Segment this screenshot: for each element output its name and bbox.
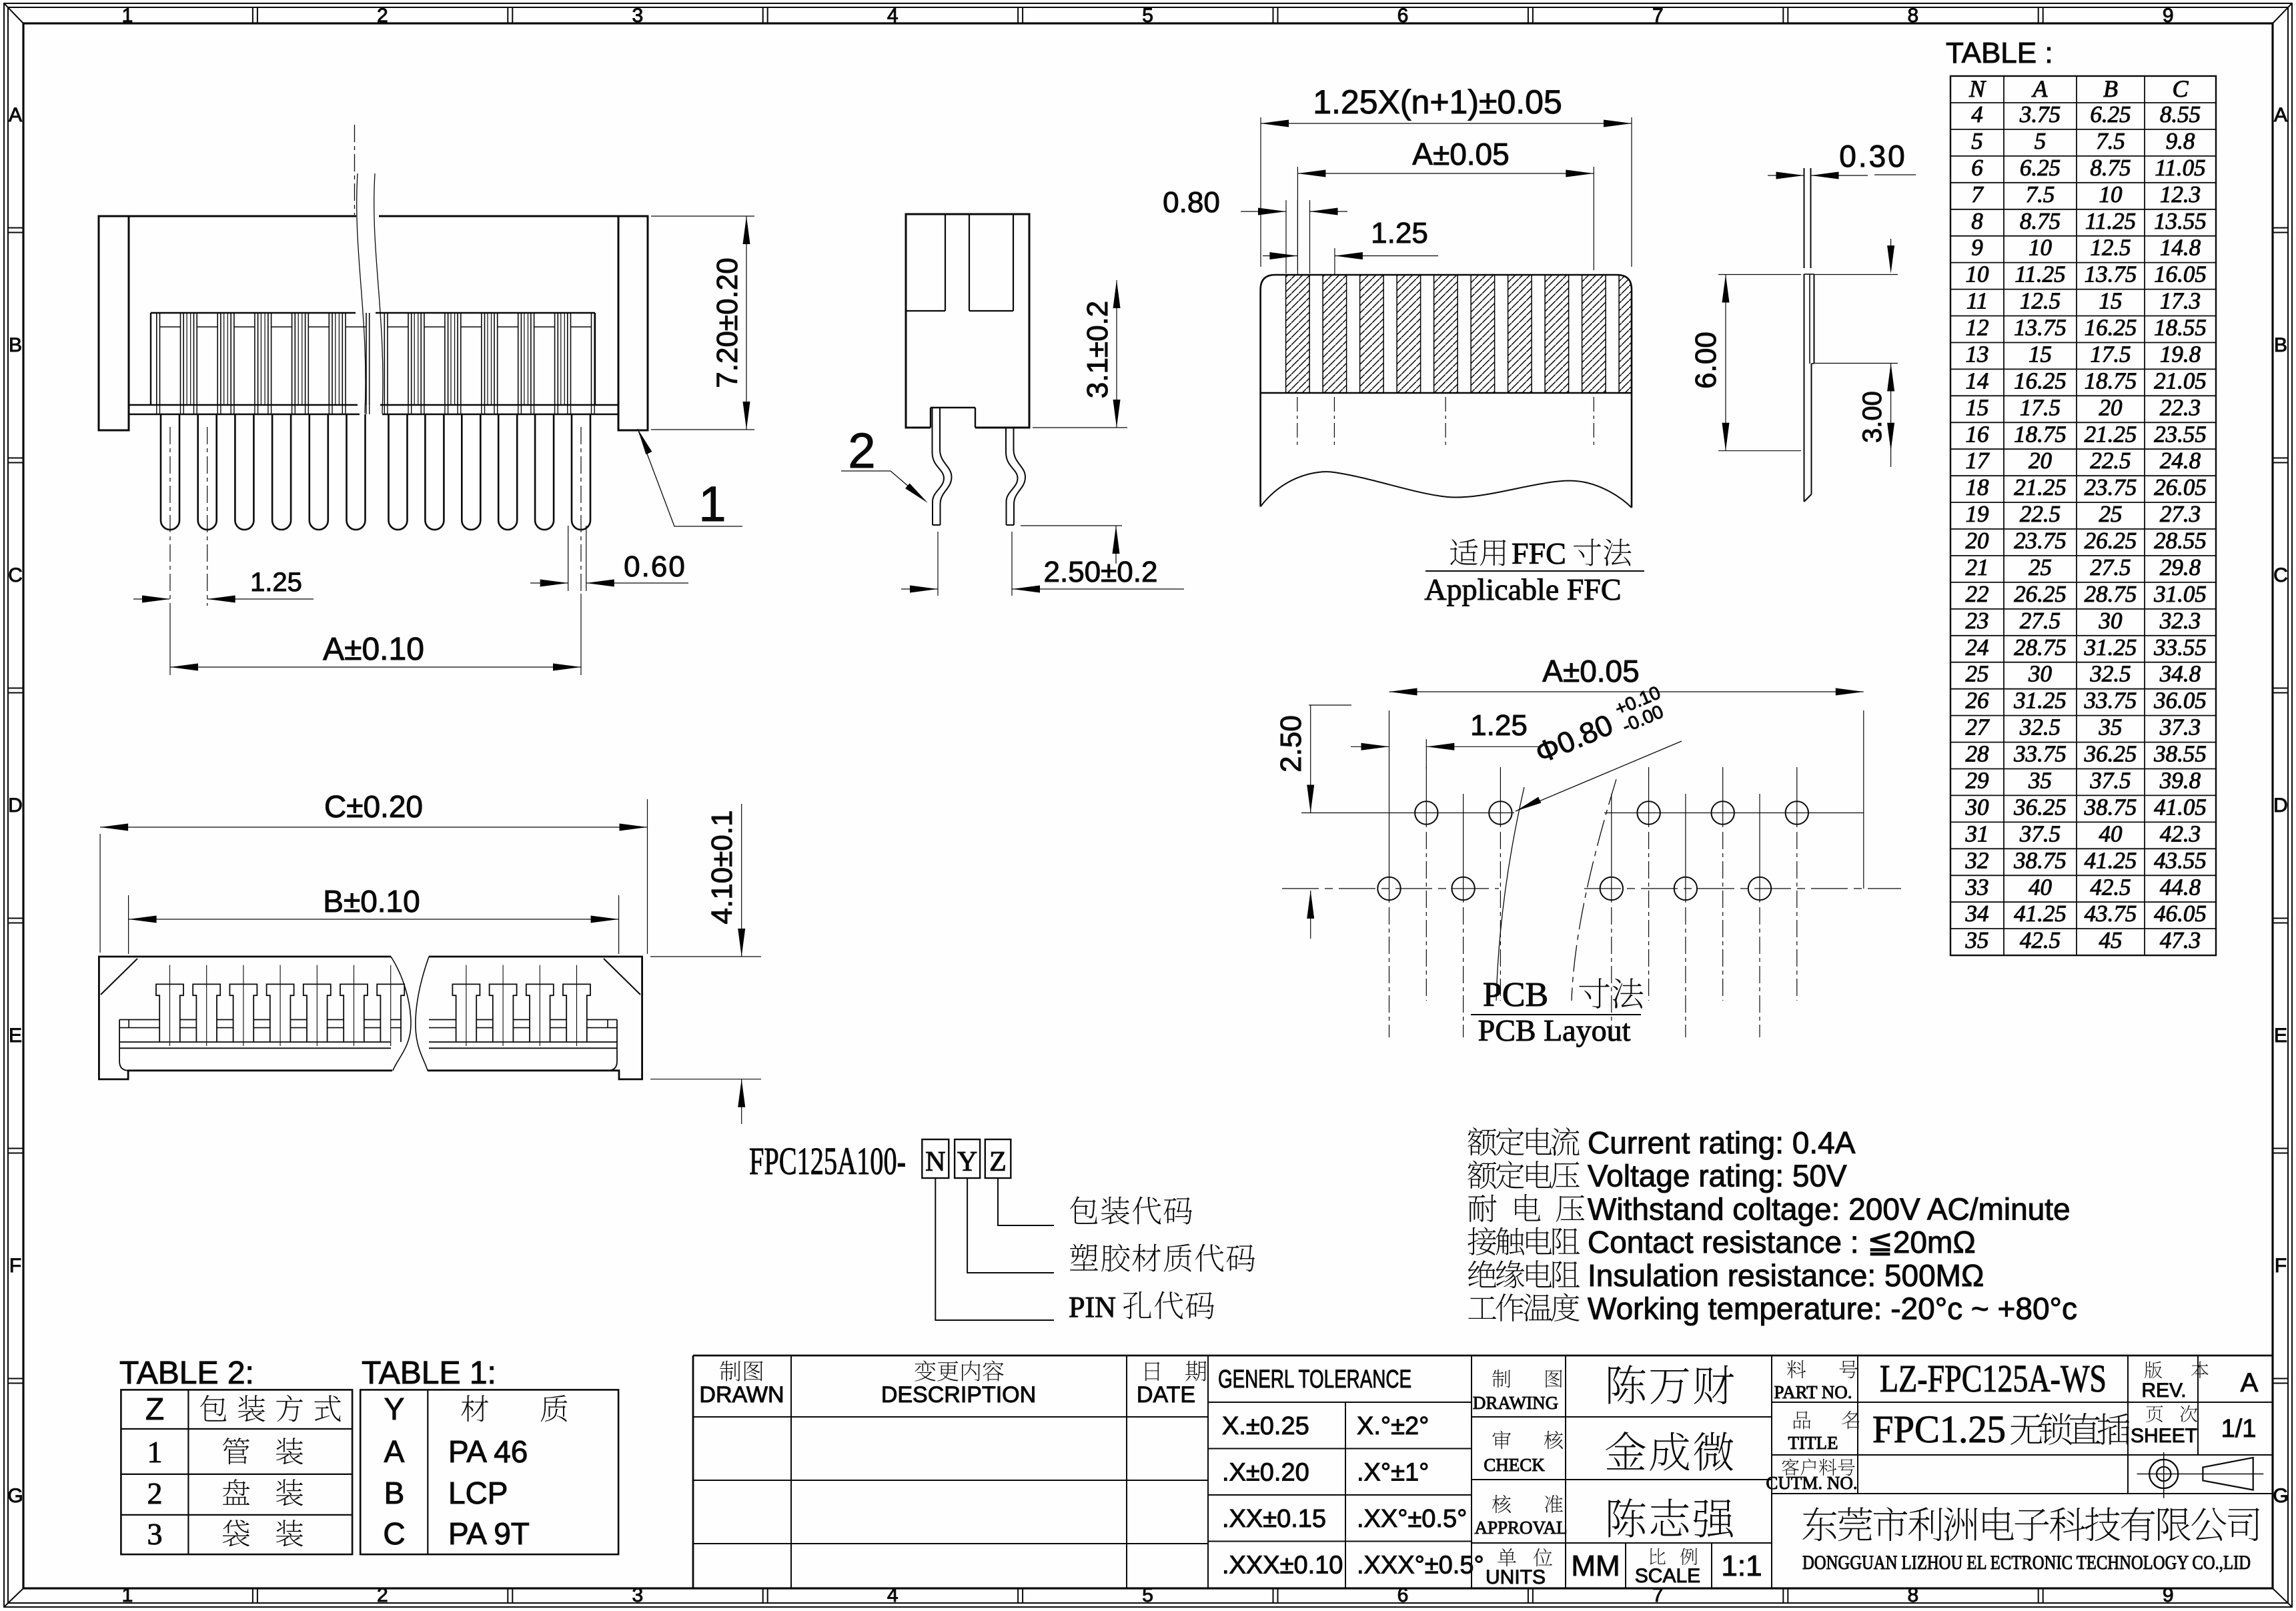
svg-text:F: F	[2275, 1255, 2287, 1277]
svg-text:23.75: 23.75	[2014, 528, 2067, 554]
svg-text:33: 33	[1965, 874, 1989, 900]
svg-text:45: 45	[2099, 927, 2123, 953]
view2 dimension 3.1±0.2	[1033, 427, 1127, 428]
front view break lines	[391, 957, 411, 1071]
svg-text:A±0.05: A±0.05	[1412, 137, 1509, 171]
svg-text:1: 1	[122, 1584, 133, 1606]
svg-text:17.5: 17.5	[2020, 394, 2061, 420]
svg-text:LZ-FPC125A-WS: LZ-FPC125A-WS	[1880, 1357, 2107, 1400]
title block units and scale cells	[1566, 1542, 1772, 1544]
svg-text:42.5: 42.5	[2020, 927, 2061, 953]
svg-text:B: B	[2103, 75, 2118, 102]
FFC dimension 1.25X(n+1)±0.05	[1260, 117, 1261, 267]
svg-text:.XXX°±0.5°: .XXX°±0.5°	[1357, 1552, 1484, 1580]
svg-text:.X°±1°: .X°±1°	[1357, 1459, 1429, 1487]
svg-text:26.05: 26.05	[2154, 474, 2207, 500]
label packing code	[1070, 1196, 1097, 1223]
svg-text:38.75: 38.75	[2013, 847, 2067, 873]
svg-text:37.5: 37.5	[2089, 768, 2131, 794]
svg-text:40: 40	[2029, 874, 2053, 900]
title block title label	[1794, 1412, 1810, 1430]
svg-text:26.25: 26.25	[2085, 528, 2137, 554]
svg-text:43.55: 43.55	[2154, 847, 2207, 873]
svg-text:12.5: 12.5	[2090, 235, 2131, 261]
frame row ticks	[8, 227, 23, 229]
FFC edge dimension 6.00	[1718, 274, 1801, 276]
svg-text:7.5: 7.5	[2026, 181, 2055, 207]
svg-text:41.25: 41.25	[2014, 901, 2067, 927]
svg-text:36.25: 36.25	[2084, 741, 2137, 767]
FFC break wave line	[1261, 472, 1632, 508]
FFC label underline and english	[1425, 570, 1644, 572]
svg-text:16: 16	[1966, 421, 1990, 447]
title block signer names	[1608, 1365, 1645, 1404]
svg-text:8: 8	[1907, 5, 1918, 27]
svg-text:21.25: 21.25	[2014, 474, 2067, 500]
svg-text:DRAWN: DRAWN	[699, 1382, 784, 1408]
svg-text:.X±0.20: .X±0.20	[1222, 1459, 1309, 1487]
svg-text:D: D	[8, 794, 23, 817]
svg-text:0.30: 0.30	[1839, 139, 1907, 173]
svg-text:25: 25	[1966, 661, 1989, 687]
svg-text:7.5: 7.5	[2096, 128, 2125, 154]
FFC label Chinese	[1450, 539, 1478, 566]
view2 end view body	[906, 214, 1029, 428]
frame column ticks	[252, 7, 253, 23]
svg-text:36.25: 36.25	[2013, 794, 2067, 820]
svg-text:6: 6	[1397, 1584, 1409, 1606]
view2 pin 2	[1006, 428, 1018, 525]
view2 top slots	[945, 214, 946, 311]
label plastic material code	[1070, 1244, 1098, 1271]
svg-text:16.25: 16.25	[2014, 368, 2067, 394]
FFC edge top reference arrow	[1890, 239, 1892, 270]
svg-text:6: 6	[1397, 5, 1409, 27]
svg-text:PART NO.: PART NO.	[1774, 1382, 1852, 1402]
title block drawing/check/approval labels	[1492, 1370, 1510, 1388]
svg-text:10: 10	[1966, 261, 1990, 288]
svg-text:14.8: 14.8	[2160, 235, 2201, 261]
svg-text:27: 27	[1966, 714, 1990, 740]
FFC dimension A±0.05	[1297, 167, 1298, 270]
svg-text:4: 4	[887, 1584, 899, 1606]
part number box Z	[985, 1139, 1011, 1178]
svg-text:X.°±2°: X.°±2°	[1357, 1412, 1429, 1440]
svg-text:B: B	[9, 334, 22, 356]
svg-text:32.5: 32.5	[2089, 661, 2131, 687]
title block tolerance section	[1208, 1402, 1472, 1403]
svg-text:A: A	[2032, 75, 2049, 102]
svg-text:TABLE 1:: TABLE 1:	[362, 1356, 496, 1391]
front view dimension C±0.20	[99, 834, 101, 953]
PCB layout bottom row line	[1282, 888, 1499, 889]
svg-text:21.05: 21.05	[2154, 368, 2207, 394]
svg-text:.XX±0.15: .XX±0.15	[1222, 1505, 1326, 1533]
svg-text:2: 2	[377, 1584, 388, 1606]
svg-text:A: A	[384, 1434, 405, 1469]
svg-text:8.75: 8.75	[2020, 208, 2061, 234]
svg-text:Insulation resistance: 500MΩ: Insulation resistance: 500MΩ	[1588, 1258, 1984, 1293]
front view teeth centerlines	[169, 965, 171, 1046]
view1 right end cap	[618, 216, 648, 430]
svg-text:Applicable FFC: Applicable FFC	[1424, 572, 1621, 606]
svg-text:TITLE: TITLE	[1788, 1433, 1838, 1453]
svg-text:4.10±0.1: 4.10±0.1	[706, 811, 738, 925]
svg-text:2.50: 2.50	[1275, 715, 1307, 772]
svg-text:12: 12	[1966, 315, 1989, 341]
svg-text:19.8: 19.8	[2160, 342, 2201, 368]
FFC edge view main section	[1804, 274, 1805, 502]
svg-text:N: N	[1968, 75, 1986, 102]
svg-text:20: 20	[1966, 528, 1990, 554]
svg-text:Contact resistance : ≦20mΩ: Contact resistance : ≦20mΩ	[1588, 1225, 1976, 1259]
svg-text:0.80: 0.80	[1163, 186, 1220, 219]
title block sheet label	[2146, 1406, 2163, 1422]
title block part no label	[1787, 1360, 1806, 1378]
svg-text:15: 15	[2029, 342, 2052, 368]
svg-text:27.3: 27.3	[2160, 501, 2201, 527]
svg-text:22.5: 22.5	[2090, 448, 2131, 474]
title block right section grid	[1771, 1356, 1772, 1588]
svg-text:Current rating: 0.4A: Current rating: 0.4A	[1588, 1125, 1856, 1160]
PCB layout dimension 2.50	[1309, 704, 1351, 706]
svg-text:47.3: 47.3	[2160, 927, 2201, 953]
svg-text:5: 5	[2035, 128, 2047, 154]
view1 leader 1	[638, 429, 652, 454]
svg-text:PA 46: PA 46	[448, 1434, 528, 1469]
svg-text:1.25: 1.25	[250, 568, 302, 597]
svg-text:Voltage rating: 50V: Voltage rating: 50V	[1588, 1159, 1847, 1193]
title block left section grid	[693, 1416, 1208, 1418]
svg-text:28.55: 28.55	[2154, 528, 2207, 554]
svg-text:13.75: 13.75	[2014, 315, 2067, 341]
title block outer lines	[693, 1355, 2273, 1357]
svg-text:6: 6	[1971, 155, 1983, 181]
svg-text:27.5: 27.5	[2090, 554, 2131, 580]
svg-text:46.05: 46.05	[2154, 901, 2207, 927]
svg-text:34: 34	[1965, 901, 1989, 927]
svg-text:15: 15	[2099, 288, 2123, 314]
svg-text:34.8: 34.8	[2159, 661, 2201, 687]
svg-text:B: B	[2274, 334, 2287, 356]
svg-text:8: 8	[1971, 208, 1983, 234]
svg-text:25: 25	[2099, 501, 2123, 527]
svg-text:C: C	[2172, 75, 2189, 102]
svg-text:37.3: 37.3	[2159, 714, 2201, 740]
view1 connector side view: left end cap	[99, 216, 129, 430]
svg-text:35: 35	[2099, 714, 2123, 740]
view1 contact comb band	[151, 312, 356, 314]
svg-text:9: 9	[2163, 1584, 2174, 1606]
view1 dimension 1.25	[133, 598, 169, 600]
svg-text:13: 13	[1966, 342, 1989, 368]
PCB layout hole centerlines	[1425, 767, 1427, 827]
svg-text:G: G	[2273, 1485, 2288, 1507]
svg-text:31.25: 31.25	[2084, 634, 2137, 660]
svg-text:6.00: 6.00	[1690, 332, 1722, 389]
svg-text:2: 2	[377, 5, 388, 27]
svg-text:23: 23	[1966, 608, 1989, 634]
svg-text:26.25: 26.25	[2014, 581, 2067, 607]
svg-text:8.75: 8.75	[2090, 155, 2131, 181]
svg-text:32.3: 32.3	[2159, 608, 2201, 634]
svg-text:PA 9T: PA 9T	[448, 1516, 530, 1551]
svg-text:REV.: REV.	[2141, 1380, 2186, 1402]
svg-text:FPC125A100-: FPC125A100-	[749, 1139, 906, 1183]
svg-text:6.25: 6.25	[2090, 101, 2131, 127]
front view contact teeth	[156, 984, 183, 1042]
svg-text:22: 22	[1966, 581, 1989, 607]
company name Chinese	[1802, 1507, 1836, 1541]
FFC conductor hatched strips	[1286, 275, 1632, 393]
svg-text:35: 35	[1965, 927, 1989, 953]
svg-text:40: 40	[2099, 821, 2123, 847]
svg-text:.XX°±0.5°: .XX°±0.5°	[1357, 1505, 1467, 1533]
PCB layout dimension 1.25	[1425, 739, 1427, 768]
front view dimension B±0.10	[128, 895, 129, 954]
svg-text:37.5: 37.5	[2019, 821, 2061, 847]
svg-text:30: 30	[2028, 661, 2053, 687]
svg-text:12.5: 12.5	[2020, 288, 2061, 314]
PCB layout top row holes	[1415, 801, 1438, 824]
PCB layout hole diameter callout	[1516, 797, 1541, 811]
svg-text:2: 2	[147, 1476, 163, 1510]
svg-text:SHEET: SHEET	[2131, 1425, 2197, 1447]
table1 grid	[360, 1390, 618, 1554]
svg-text:7.20±0.20: 7.20±0.20	[711, 257, 744, 388]
svg-text:38.55: 38.55	[2153, 741, 2207, 767]
view1 pin centerlines	[169, 427, 171, 606]
svg-text:42.5: 42.5	[2090, 874, 2131, 900]
svg-text:B: B	[384, 1476, 405, 1510]
svg-text:5: 5	[1142, 5, 1153, 27]
svg-text:28.75: 28.75	[2085, 581, 2137, 607]
svg-text:C: C	[383, 1516, 405, 1551]
svg-text:A±0.10: A±0.10	[323, 632, 424, 667]
PCB layout top row line	[1301, 813, 1514, 814]
svg-text:1: 1	[147, 1435, 163, 1469]
svg-text:16.25: 16.25	[2085, 315, 2137, 341]
svg-text:1.25: 1.25	[1470, 709, 1528, 742]
svg-text:23.75: 23.75	[2085, 474, 2137, 500]
svg-text:PCB: PCB	[1483, 976, 1548, 1014]
svg-text:24: 24	[1966, 634, 1989, 660]
third angle projection symbol	[2149, 1460, 2178, 1488]
svg-text:2: 2	[848, 423, 875, 478]
svg-text:31.05: 31.05	[2153, 581, 2207, 607]
svg-text:38.75: 38.75	[2084, 794, 2137, 820]
svg-text:3.75: 3.75	[2019, 101, 2061, 127]
svg-text:21: 21	[1966, 554, 1989, 580]
svg-text:X.±0.25: X.±0.25	[1222, 1412, 1309, 1440]
svg-text:33.75: 33.75	[2013, 741, 2067, 767]
svg-text:1/1: 1/1	[2221, 1415, 2257, 1443]
svg-text:41.25: 41.25	[2085, 847, 2137, 873]
svg-text:10: 10	[2099, 181, 2123, 207]
svg-text:29: 29	[1966, 768, 1989, 794]
part number leader lines	[998, 1178, 1054, 1225]
svg-text:31: 31	[1965, 821, 1989, 847]
svg-text:5: 5	[1142, 1584, 1153, 1606]
PCB layout break lines	[1496, 787, 1524, 1001]
svg-text:Y: Y	[957, 1147, 977, 1177]
svg-text:28.75: 28.75	[2014, 634, 2067, 660]
svg-text:23.55: 23.55	[2154, 421, 2207, 447]
svg-text:3.1±0.2: 3.1±0.2	[1081, 301, 1114, 398]
svg-text:3: 3	[147, 1517, 163, 1551]
pin count table grid	[1950, 76, 2216, 955]
view1 dimension A±0.10	[169, 606, 171, 675]
svg-text:32: 32	[1965, 847, 1989, 873]
svg-text:5: 5	[1971, 128, 1983, 154]
svg-text:Y: Y	[384, 1392, 405, 1426]
svg-text:1: 1	[698, 476, 726, 532]
svg-text:6.25: 6.25	[2020, 155, 2061, 181]
svg-text:22.3: 22.3	[2160, 394, 2201, 420]
svg-text:19: 19	[1966, 501, 1989, 527]
svg-text:APPROVAL: APPROVAL	[1474, 1518, 1567, 1538]
svg-text:3.00: 3.00	[1858, 391, 1887, 443]
view2 dimension 2.50±0.2	[1021, 525, 1122, 526]
svg-text:MM: MM	[1571, 1550, 1620, 1582]
svg-text:GENERL TOLERANCE: GENERL TOLERANCE	[1218, 1366, 1411, 1394]
svg-text:7: 7	[1652, 5, 1664, 27]
svg-text:26: 26	[1966, 688, 1990, 714]
svg-text:DESCRIPTION: DESCRIPTION	[881, 1382, 1036, 1408]
view1 comb wall contact pairs	[186, 313, 187, 405]
svg-text:DATE: DATE	[1137, 1382, 1195, 1408]
svg-text:33.55: 33.55	[2153, 634, 2207, 660]
svg-text:25: 25	[2029, 554, 2052, 580]
svg-text:F: F	[9, 1255, 21, 1277]
title block rev label	[2145, 1362, 2162, 1378]
FFC edge view film top section	[1804, 168, 1805, 268]
svg-text:11.05: 11.05	[2155, 155, 2205, 181]
svg-text:31.25: 31.25	[2013, 688, 2067, 714]
svg-text:33.75: 33.75	[2084, 688, 2137, 714]
view2 pin 1	[933, 408, 945, 525]
svg-text:11.25: 11.25	[2085, 208, 2136, 234]
front view slot rails	[119, 1019, 159, 1021]
svg-text:TABLE :: TABLE :	[1946, 37, 2053, 69]
svg-text:FPC1.25: FPC1.25	[1872, 1408, 2006, 1451]
svg-text:8.55: 8.55	[2160, 101, 2201, 127]
view1 dimension 0.60	[568, 526, 569, 591]
frame corner diagonals	[4, 3, 23, 23]
svg-text:10: 10	[2029, 235, 2053, 261]
svg-text:Z: Z	[989, 1147, 1007, 1177]
svg-text:12.3: 12.3	[2160, 181, 2201, 207]
svg-text:20: 20	[2099, 394, 2123, 420]
svg-text:44.8: 44.8	[2160, 874, 2201, 900]
svg-text:SCALE: SCALE	[1635, 1565, 1700, 1587]
svg-text:B±0.10: B±0.10	[323, 884, 420, 919]
svg-text:4: 4	[1971, 101, 1983, 127]
FFC dimension 1.25	[1263, 255, 1297, 257]
svg-text:29.8: 29.8	[2160, 554, 2201, 580]
svg-text:17.3: 17.3	[2160, 288, 2201, 314]
front view dimension 4.10±0.1	[650, 956, 761, 957]
svg-text:DONGGUAN LIZHOU EL ECTRONIC TE: DONGGUAN LIZHOU EL ECTRONIC TECHNOLOGY C…	[1802, 1552, 2251, 1574]
front view corner chamfers	[101, 959, 137, 995]
svg-text:0.60: 0.60	[624, 550, 686, 583]
FFC applicable cable view body	[1261, 275, 1632, 508]
svg-text:9: 9	[1971, 235, 1983, 261]
title block customer no label	[1782, 1458, 1799, 1475]
svg-text:A: A	[9, 104, 22, 126]
svg-text:42.3: 42.3	[2160, 821, 2201, 847]
FFC conductor centerlines	[1297, 397, 1298, 448]
svg-text:C: C	[2273, 564, 2288, 586]
svg-text:39.8: 39.8	[2159, 768, 2201, 794]
view1 dimension 7.20±0.20	[651, 215, 754, 217]
svg-text:C: C	[8, 564, 23, 586]
svg-text:3: 3	[632, 5, 643, 27]
svg-text:DRAWING: DRAWING	[1473, 1393, 1558, 1413]
svg-text:18: 18	[1966, 474, 1990, 500]
svg-text:A: A	[2274, 104, 2287, 126]
svg-text:27.5: 27.5	[2020, 608, 2061, 634]
svg-text:CHECK: CHECK	[1484, 1455, 1545, 1475]
svg-text:30: 30	[1965, 794, 1990, 820]
svg-text:32.5: 32.5	[2019, 714, 2061, 740]
svg-text:.XXX±0.10: .XXX±0.10	[1222, 1552, 1343, 1580]
svg-text:7: 7	[1971, 181, 1984, 207]
svg-text:18.75: 18.75	[2085, 368, 2137, 394]
svg-text:4: 4	[887, 5, 899, 27]
svg-text:A: A	[2241, 1368, 2259, 1398]
svg-text:2.50±0.2: 2.50±0.2	[1044, 556, 1158, 588]
svg-text:9: 9	[2163, 5, 2174, 27]
PCB layout dimension A±0.05	[1389, 710, 1390, 794]
view1 body top edge	[129, 215, 356, 217]
svg-text:41.05: 41.05	[2154, 794, 2207, 820]
svg-text:22.5: 22.5	[2020, 501, 2061, 527]
svg-text:LCP: LCP	[448, 1476, 508, 1510]
svg-text:17: 17	[1966, 448, 1990, 474]
FFC edge dimension 3.00	[1814, 363, 1898, 364]
svg-text:TABLE 2:: TABLE 2:	[119, 1356, 254, 1391]
svg-text:13.55: 13.55	[2154, 208, 2207, 234]
title block sign section grid	[1472, 1416, 1772, 1418]
svg-text:E: E	[9, 1025, 22, 1047]
svg-text:7: 7	[1652, 1584, 1664, 1606]
svg-text:1:1: 1:1	[1721, 1550, 1762, 1582]
svg-text:21.25: 21.25	[2085, 421, 2137, 447]
svg-text:A±0.05: A±0.05	[1542, 654, 1639, 688]
front view side lips	[119, 1020, 129, 1071]
svg-text:FFC: FFC	[1512, 536, 1566, 570]
FFC edge dimension 0.30	[1768, 175, 1804, 176]
svg-text:CUTM. NO.: CUTM. NO.	[1766, 1473, 1857, 1493]
svg-text:E: E	[2274, 1025, 2287, 1047]
svg-text:28: 28	[1966, 741, 1990, 767]
svg-text:11: 11	[1966, 288, 1988, 314]
svg-text:PIN: PIN	[1069, 1291, 1116, 1323]
svg-text:35: 35	[2028, 768, 2052, 794]
svg-text:9.8: 9.8	[2166, 128, 2195, 154]
title block drawn/description/date headers	[720, 1361, 740, 1382]
svg-text:D: D	[2273, 794, 2288, 817]
svg-text:PCB Layout: PCB Layout	[1478, 1013, 1631, 1047]
svg-text:1.25X(n+1)±0.05: 1.25X(n+1)±0.05	[1313, 83, 1562, 121]
FFC hatch band bottom line	[1261, 392, 1632, 394]
svg-text:13.75: 13.75	[2085, 261, 2137, 288]
front view body outline right part	[428, 957, 642, 1079]
svg-text:16.05: 16.05	[2154, 261, 2207, 288]
svg-text:20: 20	[2029, 448, 2053, 474]
view1 solder pins	[161, 414, 179, 530]
